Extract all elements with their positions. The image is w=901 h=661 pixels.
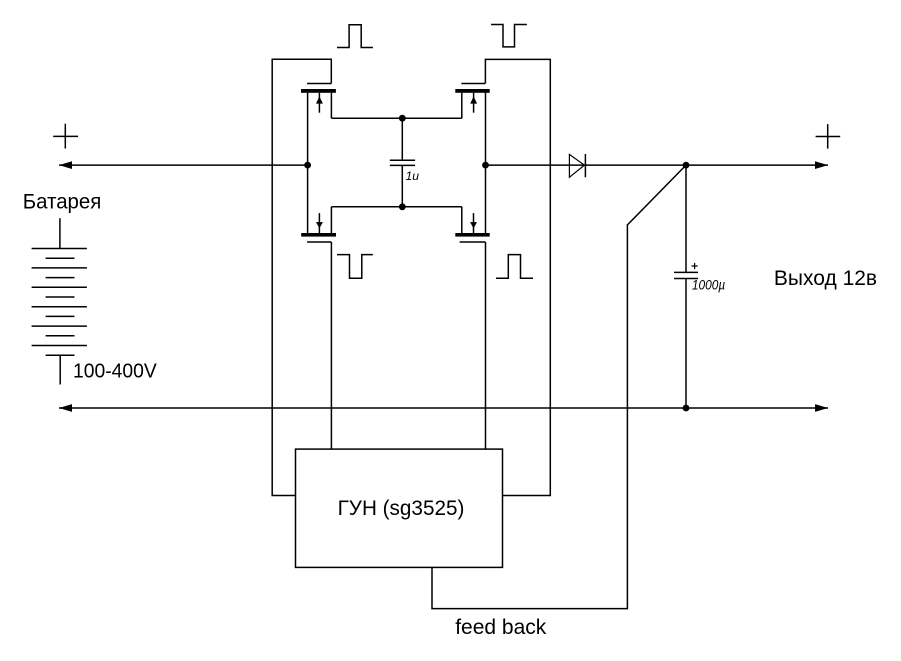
svg-text:ГУН (sg3525): ГУН (sg3525) — [338, 497, 465, 520]
svg-text:Выход 12в: Выход 12в — [774, 267, 877, 290]
svg-text:feed back: feed back — [455, 616, 547, 639]
svg-text:100-400V: 100-400V — [73, 361, 157, 383]
svg-text:1u: 1u — [406, 169, 420, 183]
svg-text:1000µ: 1000µ — [692, 277, 725, 293]
svg-text:Батарея: Батарея — [23, 190, 102, 213]
